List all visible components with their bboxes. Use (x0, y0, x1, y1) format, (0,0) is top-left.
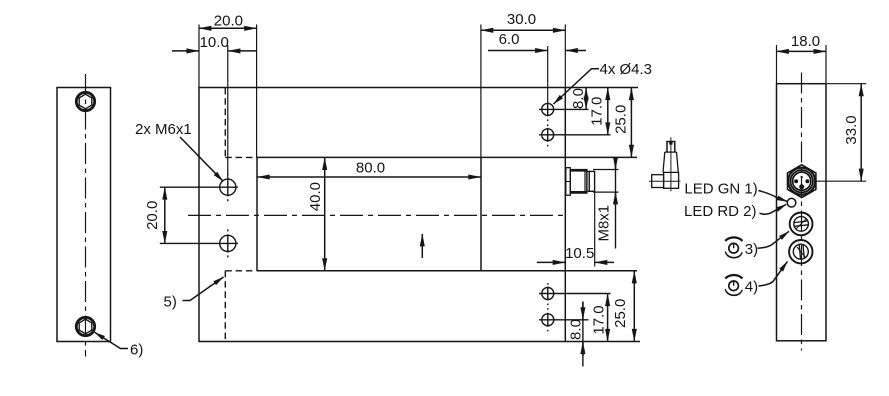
mounting hole bottom B (539, 308, 589, 331)
dimension 40.0 window height (307, 158, 325, 271)
main view outer outline (199, 88, 565, 342)
dimension 25.0 top right (612, 88, 631, 158)
svg-text:4x Ø4.3: 4x Ø4.3 (600, 61, 653, 78)
label LED GN 1) (684, 180, 787, 201)
small plug icon (649, 137, 680, 191)
leader 4x Ø4.3 (554, 61, 653, 104)
dimension 18.0 (777, 33, 827, 83)
svg-text:20.0: 20.0 (144, 201, 161, 230)
threaded hole M6 upper (160, 173, 238, 201)
svg-text:18.0: 18.0 (791, 33, 820, 50)
svg-text:2x M6x1: 2x M6x1 (135, 121, 192, 138)
dimension 33.0 (816, 84, 867, 182)
adjustment screw 3 (790, 213, 813, 236)
label 4) (745, 262, 788, 296)
svg-text:17.0: 17.0 (590, 305, 607, 334)
svg-text:25.0: 25.0 (612, 299, 629, 328)
svg-text:80.0: 80.0 (356, 159, 385, 176)
svg-text:10.0: 10.0 (200, 34, 229, 51)
dimension 6.0 top right (488, 31, 586, 103)
svg-text:33.0: 33.0 (843, 115, 860, 144)
svg-text:3): 3) (745, 241, 758, 258)
connector M8 side view (566, 168, 595, 196)
dimension 80.0 window width (257, 159, 480, 177)
mounting hole top B (539, 124, 611, 146)
svg-text:M8x1: M8x1 (595, 205, 612, 242)
svg-text:25.0: 25.0 (612, 105, 629, 134)
svg-text:20.0: 20.0 (214, 12, 243, 29)
svg-text:4): 4) (745, 279, 758, 296)
dimension 8.0 top right (570, 88, 587, 110)
dimension 20.0 left vertical (144, 187, 165, 243)
torque icon 4 (725, 275, 742, 295)
dimension 25.0 bottom right (612, 271, 634, 341)
top edge extension to right (565, 87, 638, 89)
svg-text:LED GN 1): LED GN 1) (684, 180, 757, 197)
bottom edge extension to right (565, 341, 640, 343)
dimension 10.0 top (172, 34, 257, 178)
svg-text:8.0: 8.0 (567, 319, 584, 340)
right view body outline (777, 84, 827, 341)
dimension 30.0 top right (481, 11, 565, 157)
label 3) (745, 231, 789, 258)
dimension 10.5 (537, 192, 614, 266)
dimension 20.0 top (199, 12, 257, 157)
hex socket screw top (76, 92, 94, 110)
label LED RD 2) (684, 203, 786, 220)
svg-text:6.0: 6.0 (499, 31, 520, 48)
hidden recess edges (dashed) (225, 88, 256, 341)
left view vertical centerline (85, 74, 87, 357)
connector M8 front view (788, 165, 816, 198)
leader 2x M6x1 (135, 121, 223, 181)
threaded hole M6 lower (160, 229, 238, 257)
svg-text:17.0: 17.0 (589, 97, 606, 126)
main horizontal centerline (188, 214, 565, 216)
right view vertical centerline (801, 73, 803, 351)
LED window (787, 198, 796, 207)
svg-text:40.0: 40.0 (307, 182, 324, 211)
svg-text:8.0: 8.0 (570, 88, 587, 109)
svg-text:LED RD 2): LED RD 2) (684, 203, 757, 220)
main view window (slot) opening (257, 157, 637, 270)
svg-text:5): 5) (164, 294, 177, 311)
svg-text:6): 6) (130, 342, 143, 359)
leader 6) (95, 332, 144, 358)
dimension M8x1 (593, 158, 619, 249)
svg-text:10.5: 10.5 (565, 245, 594, 262)
dimension 17.0 bottom right (590, 294, 607, 342)
mounting hole top A (539, 102, 589, 121)
dimension 8.0 bottom right (567, 302, 584, 367)
direction arrow in window (421, 234, 423, 258)
svg-text:30.0: 30.0 (507, 11, 536, 28)
hex socket screw bottom (76, 317, 94, 335)
adjustment screw 4 (789, 240, 812, 263)
torque icon 3 (725, 237, 742, 257)
mounting hole bottom A (539, 283, 611, 305)
dimension 17.0 top right (589, 88, 608, 135)
leader 5) (164, 277, 224, 311)
left view body outline (57, 88, 111, 342)
